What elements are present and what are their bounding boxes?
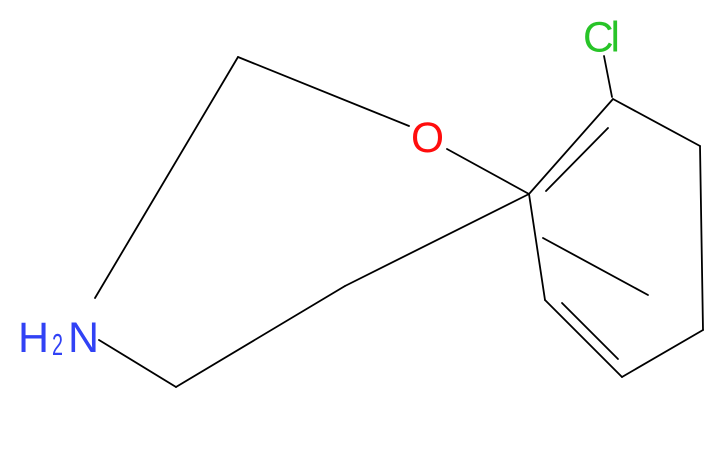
wire inner double line v6-v1 [546,128,608,191]
wire terminal chain bond T-apex [95,57,238,298]
wire ring edge v4-v5 [545,300,622,377]
svg-text:N: N [68,314,99,362]
wire ring edge v1-v2 [613,99,700,146]
wire apex-O bond [238,57,409,126]
node H2N amine label [18,314,99,362]
wire ring edge v5-v6 [529,194,545,300]
svg-text:C: C [583,15,614,62]
wire extra segment d [543,238,648,295]
wire chain bond M-ring [345,194,529,286]
wire N-CH2 bond [99,340,176,387]
svg-text:2: 2 [52,327,63,362]
wire O-ring bond [447,149,529,194]
wire chain bond A-M [176,286,345,387]
svg-text:O: O [411,115,444,162]
wire inner double line v4-v5 [562,303,618,359]
svg-text:H: H [18,314,49,362]
wire ring edge v2-v3 [700,146,703,330]
wire ring edge v3-v4 [622,330,703,377]
svg-text:l: l [611,15,620,62]
wire Cl bond [604,56,612,97]
wire ring edge v6-v1 [529,99,613,194]
